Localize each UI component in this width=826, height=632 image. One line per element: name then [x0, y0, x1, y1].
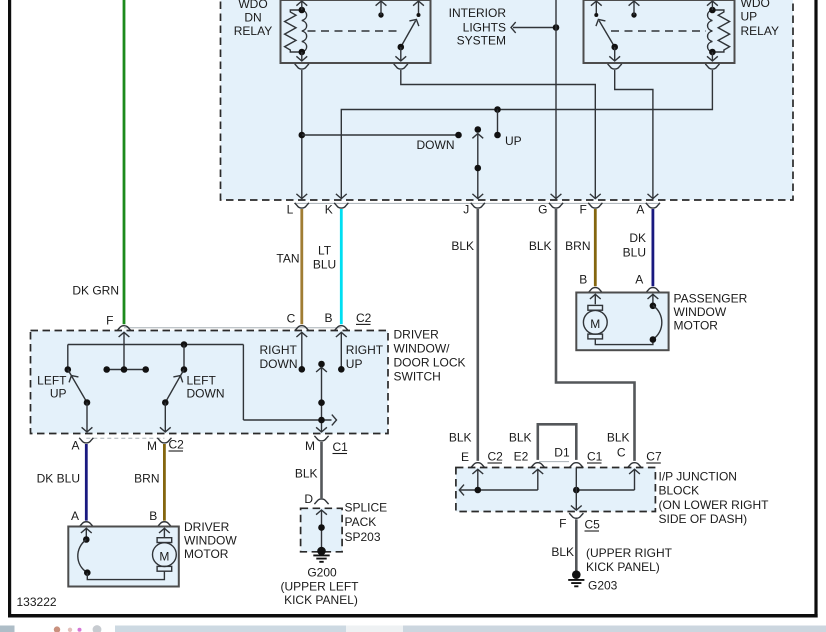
svg-text:SYSTEM: SYSTEM	[457, 34, 506, 48]
svg-text:PACK: PACK	[345, 515, 377, 529]
relay K1 coil top junction	[299, 7, 306, 14]
wire switch S1 top rail	[68, 344, 244, 346]
relay K2 coil resistor winding	[712, 10, 729, 52]
motor M2 limit arc bottom node	[650, 336, 657, 343]
motor M1 driver window motor box	[68, 527, 179, 587]
svg-text:G203: G203	[588, 579, 618, 593]
label RIGHT DOWN	[260, 343, 298, 371]
svg-text:TAN: TAN	[276, 252, 299, 266]
node left down throw	[162, 399, 169, 406]
wire bottom rail drop	[242, 345, 244, 421]
connector cup switch pin C	[295, 326, 309, 331]
wire to pin M C2	[164, 403, 166, 432]
label upper left kick panel	[280, 580, 359, 608]
svg-text:PASSENGER: PASSENGER	[674, 291, 748, 305]
wire K1 switch to net F	[401, 70, 596, 198]
svg-text:WINDOW: WINDOW	[674, 305, 727, 319]
svg-text:A: A	[635, 273, 643, 287]
wire splice internal	[316, 510, 327, 515]
svg-text:133222: 133222	[17, 595, 57, 609]
svg-text:A: A	[71, 439, 79, 453]
diagram frame bottom edge	[8, 614, 818, 618]
wire DK BLU switch A to motor A	[85, 444, 88, 521]
connector cup switch pin A	[79, 438, 93, 443]
wire BLK J to E	[476, 209, 479, 461]
node left down pivot	[181, 366, 188, 373]
svg-text:(UPPER LEFT: (UPPER LEFT	[280, 580, 359, 594]
svg-text:WINDOW/: WINDOW/	[394, 342, 451, 356]
label LEFT DOWN	[187, 374, 225, 401]
svg-text:F: F	[106, 314, 113, 328]
wire K2 switch to net A	[615, 70, 653, 198]
wire motor M1 bottom link	[87, 571, 164, 579]
svg-text:WDO: WDO	[741, 0, 770, 10]
motor M1 limit arc top node	[83, 536, 90, 543]
svg-text:BLK: BLK	[551, 545, 574, 559]
svg-text:B: B	[324, 311, 332, 325]
connector cup terminal F	[588, 203, 602, 208]
wire relay K1 coil bottom out	[301, 52, 303, 61]
motor M1 limit arc	[78, 540, 88, 573]
connector cup ip pin C	[627, 463, 641, 468]
relay K2 coil bottom junction	[709, 49, 716, 56]
wire ip E2 entry	[532, 469, 543, 474]
connector cup ip pin F	[569, 513, 583, 518]
browser footer strip	[0, 625, 826, 632]
jumper D1 wire	[538, 424, 577, 460]
wire LT BLU K to B	[340, 209, 343, 324]
wire left down drop	[183, 345, 185, 370]
relay K1 switch fixed contact	[417, 13, 421, 17]
svg-text:LEFT: LEFT	[37, 374, 67, 388]
svg-text:LIGHTS: LIGHTS	[463, 21, 506, 35]
switch arm LEFT DOWN	[165, 370, 184, 403]
svg-text:G200: G200	[307, 566, 337, 580]
node DOWN contact	[455, 132, 462, 139]
wire right pole	[316, 367, 327, 372]
wire motor M1 pin B entry	[159, 528, 170, 533]
relay K1 WDO DN RELAY box	[281, 0, 431, 63]
wire BLK G to C	[556, 209, 635, 461]
svg-text:SP203: SP203	[345, 530, 381, 544]
svg-text:BLK: BLK	[449, 431, 472, 445]
node bar right	[142, 366, 149, 373]
node left up pivot	[65, 366, 72, 373]
relay K1 switch pole node	[398, 44, 405, 51]
svg-text:C1: C1	[587, 449, 603, 463]
switch S1 driver window door lock switch dashed box	[31, 331, 389, 434]
svg-text:M: M	[159, 550, 169, 564]
wire TAN L to C	[300, 209, 303, 324]
connector row faint link	[294, 202, 660, 204]
svg-text:BLK: BLK	[509, 431, 532, 445]
motor M1 body circle	[153, 543, 177, 567]
svg-text:UP: UP	[346, 357, 363, 371]
motor M2 limit arc	[653, 306, 662, 340]
connector cup terminal G	[549, 203, 563, 208]
svg-text:DRIVER: DRIVER	[184, 520, 230, 534]
connector cup ip pin E	[471, 463, 485, 468]
relay K1 coil bottom junction	[299, 49, 306, 56]
svg-text:DRIVER: DRIVER	[394, 328, 440, 342]
node bottom rail junction	[318, 417, 325, 424]
connector cup switch pin F	[117, 326, 131, 331]
wire BLK switch M to splice D	[320, 442, 323, 498]
motor M1 label	[184, 520, 237, 561]
relay K2 label WDO UP RELAY	[741, 0, 779, 38]
wire net G vertical	[555, 0, 557, 198]
svg-text:B: B	[149, 509, 157, 523]
svg-text:BLU: BLU	[313, 258, 336, 272]
diagram frame right edge	[814, 0, 817, 618]
svg-text:C5: C5	[585, 518, 601, 532]
svg-text:K: K	[325, 203, 333, 217]
connector cup ip pin C1	[569, 463, 583, 468]
svg-text:C1: C1	[333, 440, 349, 454]
wire motor M2 pin B entry	[590, 294, 601, 299]
wire relay K1 coil top feed	[301, 1, 303, 10]
svg-text:DK BLU: DK BLU	[37, 472, 80, 486]
connector cup terminal K	[334, 203, 348, 208]
connector cup terminal L	[295, 203, 309, 208]
svg-text:A: A	[71, 509, 79, 523]
node splice SP203	[318, 524, 325, 531]
wire net K to K2 coil	[341, 70, 712, 198]
svg-text:M: M	[147, 439, 157, 453]
power window system module dashed box	[221, 0, 794, 200]
svg-text:B: B	[579, 273, 587, 287]
relay K2 switch fixed contact	[594, 13, 598, 17]
wire motor M2 pin A entry	[648, 294, 659, 299]
svg-text:DN: DN	[244, 11, 261, 25]
svg-text:UP: UP	[741, 10, 758, 24]
relay K2 switch arm	[599, 21, 615, 47]
svg-text:UP: UP	[50, 387, 67, 401]
connector cup switch pin M C2	[157, 438, 171, 443]
connector cup terminal J	[471, 203, 485, 208]
wire relay K1 switch out	[400, 47, 402, 61]
svg-text:DK GRN: DK GRN	[72, 284, 119, 298]
svg-text:RIGHT: RIGHT	[346, 343, 384, 357]
relay K1 feed stub node	[378, 12, 383, 17]
wire motor M1 pin A entry	[81, 528, 92, 533]
svg-text:F: F	[579, 203, 586, 217]
connector cup switch pin B	[334, 326, 348, 331]
relay K2 coil top junction	[709, 7, 716, 14]
node right pole contact	[318, 361, 325, 368]
svg-text:BLK: BLK	[451, 239, 474, 253]
wire BRN switch M to motor B	[163, 444, 166, 521]
motor M2 label	[674, 291, 748, 332]
wire relay K2 switch out	[614, 47, 616, 61]
svg-text:G: G	[538, 203, 547, 217]
node right down contact	[299, 366, 306, 373]
svg-text:C: C	[617, 446, 626, 460]
svg-text:MOTOR: MOTOR	[674, 319, 719, 333]
wire arrow to interior lights system	[513, 27, 556, 29]
switch arm LEFT UP	[68, 370, 87, 403]
svg-text:L: L	[287, 203, 294, 217]
svg-text:RELAY: RELAY	[234, 24, 272, 38]
svg-text:BRN: BRN	[134, 472, 159, 486]
svg-text:WINDOW: WINDOW	[184, 534, 237, 548]
motor M2 brush bracket bottom	[588, 334, 603, 339]
svg-text:DOWN: DOWN	[260, 357, 298, 371]
wire right down contact from C	[296, 332, 307, 337]
svg-text:SWITCH: SWITCH	[394, 370, 441, 384]
svg-text:BLK: BLK	[529, 239, 552, 253]
diagram frame left edge	[8, 0, 11, 618]
svg-text:D1: D1	[554, 446, 570, 460]
svg-text:(UPPER RIGHT: (UPPER RIGHT	[586, 546, 673, 560]
motor M2 limit arc top node	[650, 303, 657, 310]
connector cup ip pin E2	[531, 463, 545, 468]
svg-text:RIGHT: RIGHT	[260, 343, 298, 357]
svg-text:LT: LT	[318, 244, 332, 258]
svg-text:E2: E2	[514, 449, 529, 463]
ground G200	[313, 547, 329, 562]
wire to pin A	[86, 403, 88, 432]
connector cup splice pin D	[314, 499, 328, 504]
connector cup relay K1 coil	[295, 64, 309, 69]
connector cup motor M1 pin A	[79, 522, 93, 527]
node L DOWN branch	[299, 132, 306, 139]
svg-text:DOWN: DOWN	[417, 138, 455, 152]
relay K2 feed stub node	[631, 12, 636, 17]
wire ip C1 through	[575, 468, 577, 510]
relay K2 coil inductor winding	[708, 10, 713, 52]
wire net J pole	[472, 134, 483, 139]
label LEFT UP	[37, 374, 67, 401]
svg-text:C: C	[287, 311, 296, 325]
connector C2 faint dashed link	[86, 437, 164, 439]
svg-text:J: J	[463, 203, 469, 217]
wire ip E entry	[472, 469, 483, 474]
svg-text:C7: C7	[646, 449, 662, 463]
ip junction block label	[659, 470, 770, 527]
node J pole contact	[475, 126, 482, 133]
wire DK BLU A to A	[652, 209, 655, 286]
node UP branch	[494, 106, 501, 113]
svg-text:SIDE OF DASH): SIDE OF DASH)	[659, 512, 748, 526]
svg-text:M: M	[305, 439, 315, 453]
relay K1 switch arm	[401, 21, 416, 47]
connector C2 faint link switch top	[124, 327, 342, 329]
svg-text:M: M	[590, 317, 600, 331]
relay K1 label WDO DN RELAY	[234, 0, 272, 38]
wire left up drop	[67, 345, 69, 370]
svg-text:KICK PANEL): KICK PANEL)	[586, 560, 660, 574]
connector cup motor M1 pin B	[157, 522, 171, 527]
svg-text:WDO: WDO	[238, 0, 267, 11]
svg-text:BLK: BLK	[295, 467, 318, 481]
wire DK GRN feed	[123, 0, 126, 324]
connector cup relay K2 switch	[608, 64, 622, 69]
relay K2 switch pole node	[611, 44, 618, 51]
svg-text:RELAY: RELAY	[741, 24, 779, 38]
node right up contact	[338, 366, 345, 373]
svg-text:INTERIOR: INTERIOR	[449, 6, 507, 20]
wire ip right bus	[576, 489, 634, 491]
svg-text:(ON LOWER RIGHT: (ON LOWER RIGHT	[659, 498, 770, 512]
connector faint link E2 C1	[539, 461, 569, 463]
svg-text:BRN: BRN	[565, 239, 590, 253]
wire right up contact from B	[336, 332, 347, 337]
relay K1 actuator dashed link	[308, 30, 403, 32]
svg-text:A: A	[636, 203, 644, 217]
label DK BLU	[623, 231, 646, 260]
splice pack SP203 dashed box	[301, 508, 343, 552]
node left up throw	[84, 399, 91, 406]
motor M2 passenger window motor box	[576, 293, 668, 351]
node interior lights tap	[553, 24, 560, 31]
motor M1 limit arc bottom node	[84, 569, 91, 576]
motor M1 brush bracket top	[157, 538, 172, 543]
ground G203	[568, 570, 584, 586]
wire bottom rail	[243, 419, 331, 421]
svg-text:BLU: BLU	[623, 246, 646, 260]
node ip C1 junction	[573, 487, 580, 494]
node UP contact	[494, 132, 501, 139]
node bar left	[103, 366, 110, 373]
node right pole mid	[318, 399, 325, 406]
pin letters L K J G F A	[287, 203, 645, 217]
motor M2 body circle	[583, 310, 607, 334]
svg-text:DK: DK	[629, 231, 646, 245]
relay K1 coil inductor winding	[302, 10, 307, 52]
switch S1 common bar	[107, 369, 146, 371]
node ip E junction	[475, 487, 482, 494]
motor M2 brush bracket top	[588, 305, 603, 310]
interior lights system label	[449, 6, 507, 48]
svg-text:I/P JUNCTION: I/P JUNCTION	[659, 470, 737, 484]
svg-text:D: D	[304, 492, 313, 506]
svg-text:DOOR LOCK: DOOR LOCK	[394, 356, 466, 370]
svg-text:KICK PANEL): KICK PANEL)	[284, 593, 358, 607]
node left down rail tap	[181, 341, 188, 348]
wire ip C entry	[629, 469, 640, 474]
wire relay K2 coil bottom out	[711, 52, 713, 61]
switch S1 label	[394, 328, 466, 384]
wire switch F entry	[119, 332, 130, 337]
connector cup terminal A	[646, 203, 660, 208]
svg-text:E: E	[461, 450, 469, 464]
connector cup relay K1 switch	[394, 64, 408, 69]
wire BLK ip F to G203	[575, 519, 578, 571]
wire BRN F to B	[594, 209, 597, 286]
svg-text:C2: C2	[488, 449, 504, 463]
wire motor M2 bottom link	[595, 339, 653, 345]
svg-text:C2: C2	[356, 311, 372, 325]
relay K2 WDO UP RELAY box	[584, 0, 735, 63]
wire UP contact stub	[497, 110, 499, 136]
svg-text:UP: UP	[505, 134, 522, 148]
node J mid junction	[475, 165, 482, 172]
label upper right kick panel	[586, 546, 673, 574]
svg-text:DOWN: DOWN	[187, 387, 225, 401]
connector cup motor M2 pin A	[646, 288, 660, 293]
svg-text:SPLICE: SPLICE	[345, 501, 388, 515]
svg-text:BLOCK: BLOCK	[659, 484, 700, 498]
svg-text:MOTOR: MOTOR	[184, 547, 229, 561]
connector cup relay K2 coil	[705, 64, 719, 69]
svg-text:F: F	[559, 517, 566, 531]
connector cup switch pin M C1	[314, 436, 328, 441]
svg-text:LEFT: LEFT	[187, 374, 217, 388]
wire ip left bus	[461, 489, 538, 491]
splice pack label	[345, 501, 388, 545]
wire net L from K1 coil	[301, 70, 303, 198]
relay K1 coil resistor winding	[285, 10, 302, 52]
ip junction block dashed box	[456, 468, 656, 512]
motor M1 brush bracket bottom	[157, 566, 172, 571]
svg-text:BLK: BLK	[607, 431, 630, 445]
node bar center	[121, 366, 128, 373]
svg-text:C2: C2	[169, 438, 185, 452]
connector cup motor M2 pin B	[588, 288, 602, 293]
wire DOWN contact branch	[302, 134, 459, 136]
label RIGHT UP	[346, 343, 384, 371]
wire relay K2 coil top feed	[711, 1, 713, 10]
relay K2 actuator dashed link	[611, 30, 706, 32]
label LT BLU	[313, 244, 336, 272]
